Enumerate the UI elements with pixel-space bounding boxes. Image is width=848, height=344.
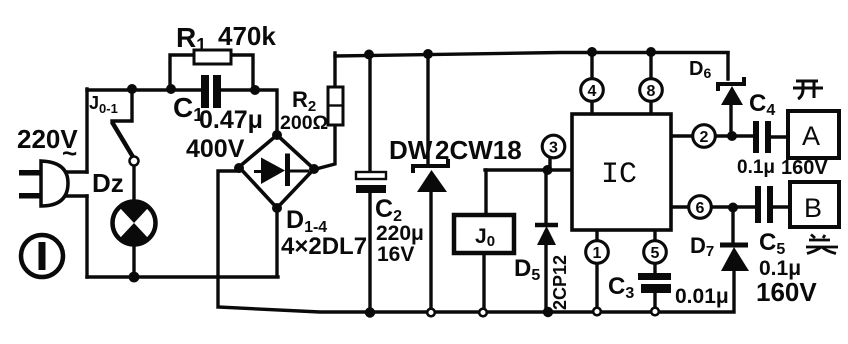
svg-text:2CP12: 2CP12: [550, 255, 570, 310]
svg-text:B: B: [804, 193, 822, 223]
svg-text:220μ: 220μ: [376, 222, 424, 245]
svg-text:DW: DW: [389, 135, 433, 165]
svg-text:160V: 160V: [781, 157, 828, 179]
svg-text:~: ~: [62, 138, 77, 168]
svg-text:1: 1: [593, 245, 602, 262]
svg-text:160V: 160V: [756, 277, 817, 307]
svg-text:8: 8: [647, 83, 656, 100]
svg-text:5: 5: [651, 245, 660, 262]
svg-text:2CW18: 2CW18: [435, 135, 522, 165]
svg-text:6: 6: [696, 200, 705, 217]
svg-text:400V: 400V: [186, 135, 245, 163]
svg-text:4×2DL7: 4×2DL7: [281, 233, 367, 260]
svg-text:2: 2: [700, 129, 709, 146]
svg-text:0.47μ: 0.47μ: [199, 106, 263, 134]
svg-text:0.1μ: 0.1μ: [737, 157, 775, 178]
svg-text:0.01μ: 0.01μ: [675, 285, 729, 308]
svg-text:3: 3: [549, 140, 558, 157]
svg-text:4: 4: [588, 83, 597, 100]
svg-text:200Ω: 200Ω: [280, 112, 328, 134]
svg-text:16V: 16V: [377, 243, 414, 266]
svg-text:470k: 470k: [218, 21, 276, 51]
svg-text:IC: IC: [601, 158, 637, 192]
svg-text:A: A: [802, 121, 820, 151]
svg-text:Dz: Dz: [92, 168, 124, 198]
